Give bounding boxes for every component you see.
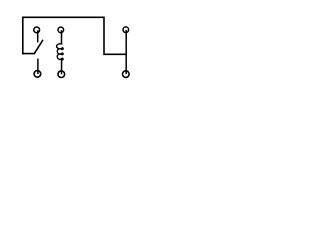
- inductor L1: [57, 44, 64, 60]
- wire: [23, 53, 35, 55]
- terminal (top right): [123, 27, 129, 33]
- terminal (bottom right): [123, 71, 130, 78]
- terminal (bottom middle): [58, 71, 65, 78]
- wire: [125, 30, 127, 74]
- switch SW1 fixed contact stub: [37, 30, 39, 42]
- wire: [61, 30, 63, 44]
- terminal (bottom left): [34, 71, 41, 78]
- switch SW1 blade: [34, 40, 42, 53]
- wire: [37, 59, 39, 75]
- terminal (top middle): [58, 27, 64, 33]
- terminal (top left): [34, 27, 40, 33]
- wire: [61, 60, 63, 75]
- wire: [23, 17, 126, 54]
